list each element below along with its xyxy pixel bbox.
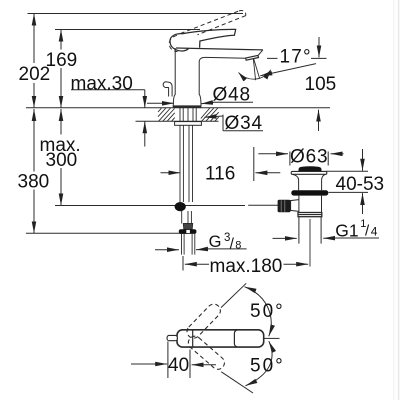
svg-text:50°: 50° bbox=[250, 356, 285, 377]
supply pipes bbox=[180, 125, 193, 202]
svg-text:Ø48: Ø48 bbox=[213, 84, 251, 105]
svg-text:max.180: max.180 bbox=[210, 256, 283, 277]
pop-up rod right segment bbox=[248, 204, 278, 206]
label max.30 with leader bbox=[71, 89, 145, 91]
dimension Ø63 bbox=[258, 153, 288, 155]
50 deg arc lower bbox=[246, 341, 273, 386]
G3/8 connection tube bbox=[182, 234, 195, 255]
dimension 202 bbox=[33, 14, 35, 64]
dimension max.300 bbox=[60, 109, 62, 135]
drain centerline bbox=[309, 219, 311, 267]
deck top line bbox=[26, 107, 330, 109]
svg-text:Ø34: Ø34 bbox=[225, 113, 263, 134]
handle axis tick bbox=[265, 337, 280, 339]
svg-text:/: / bbox=[230, 235, 235, 252]
pop-up rod knob behind faucet bbox=[163, 82, 172, 97]
drain rod socket bbox=[291, 200, 299, 212]
svg-text:17°: 17° bbox=[280, 47, 312, 68]
faucet spout top bbox=[176, 48, 263, 50]
handle dashed position down bbox=[186, 334, 227, 372]
dimension 116 bbox=[161, 172, 181, 174]
drain flange skirt bbox=[293, 174, 326, 190]
drain lift knob bbox=[298, 166, 321, 171]
deck hatching right bbox=[201, 108, 219, 121]
dimension Ø48 left arrow bbox=[147, 102, 174, 104]
dimension 169 bbox=[60, 30, 62, 50]
page edge shading bbox=[393, 0, 399, 400]
svg-text:G: G bbox=[209, 233, 222, 251]
drain shoulder ring bbox=[298, 213, 322, 217]
drain tailpiece bbox=[299, 217, 321, 244]
extension line top of open lever (202 ref) bbox=[28, 13, 244, 15]
drain knurled knob bbox=[278, 200, 291, 212]
faucet body left edge bbox=[173, 48, 175, 106]
extension line max.300 bottom / pop-up rod bbox=[55, 205, 245, 207]
50 deg arc upper bbox=[245, 287, 272, 337]
17 deg arc bbox=[239, 70, 271, 79]
svg-text:8: 8 bbox=[235, 239, 241, 251]
extension line 116 right bbox=[253, 147, 255, 181]
deck bottom line bbox=[136, 120, 219, 122]
svg-text:max.30: max.30 bbox=[71, 74, 133, 95]
extension line max.180 left bbox=[182, 256, 184, 271]
svg-text:G1: G1 bbox=[335, 221, 358, 241]
dimension 40-53 bbox=[362, 149, 364, 171]
handle top view solid bbox=[177, 330, 264, 347]
shank washer bbox=[175, 122, 202, 126]
svg-text:Ø63: Ø63 bbox=[290, 147, 328, 168]
extension lines 40 bbox=[168, 342, 190, 379]
dimension 105 top arrow bbox=[318, 37, 320, 57]
faucet lever solid bbox=[170, 29, 236, 51]
label 17 deg leader bbox=[260, 64, 316, 76]
faucet base bottom bbox=[173, 105, 202, 107]
label G1 1/4 arrows and underline bbox=[336, 237, 380, 239]
rod pivot bbox=[175, 202, 186, 211]
extension line 380 bottom bbox=[26, 232, 188, 234]
svg-text:40-53: 40-53 bbox=[336, 174, 385, 195]
dimension 380 bbox=[33, 109, 35, 172]
label G3/8 arrows and underline bbox=[155, 249, 179, 251]
drain body bbox=[299, 196, 322, 213]
deck hatching left bbox=[158, 108, 175, 121]
dimension max.180 bbox=[185, 263, 209, 265]
svg-text:169: 169 bbox=[46, 50, 78, 71]
dimension 105 bottom arrow bbox=[318, 110, 320, 131]
extension line outlet height (under 17 deg) bbox=[267, 57, 327, 59]
G3/8 hex nut bbox=[179, 229, 197, 234]
drain locknut bbox=[291, 190, 328, 195]
svg-text:40: 40 bbox=[168, 355, 189, 376]
svg-text:/: / bbox=[365, 223, 370, 240]
handle set screw nub bbox=[167, 335, 177, 340]
svg-text:50°: 50° bbox=[250, 301, 285, 322]
water stream lines bbox=[253, 59, 259, 81]
handle grip division lines bbox=[192, 330, 194, 346]
pipes below pivot bbox=[182, 211, 192, 224]
handle dashed position up bbox=[184, 301, 223, 340]
50 deg leg line lower bbox=[221, 372, 253, 393]
faucet spout tip face bbox=[258, 50, 263, 56]
drain flange plate bbox=[291, 171, 327, 174]
label Ø34 box and leader bbox=[223, 115, 263, 131]
svg-text:105: 105 bbox=[305, 74, 337, 95]
svg-text:380: 380 bbox=[18, 172, 50, 193]
faucet lever dashed open position bbox=[169, 11, 246, 52]
svg-text:300: 300 bbox=[46, 150, 78, 171]
faucet body right edge bbox=[199, 57, 246, 106]
extension lines 40-53 bbox=[326, 171, 368, 192]
svg-text:116: 116 bbox=[205, 164, 235, 185]
G3/8 fitting collar bbox=[183, 224, 192, 230]
extension line top of closed lever (169 ref) bbox=[55, 29, 200, 31]
dimension Ø48 leader and underline bbox=[213, 101, 254, 103]
faucet aerator bbox=[246, 55, 259, 60]
svg-text:4: 4 bbox=[371, 225, 378, 239]
faucet shank through deck bbox=[180, 108, 196, 121]
dimension 40 bbox=[131, 363, 167, 365]
50 deg leg line upper bbox=[221, 283, 246, 307]
extension lines Ø63 bbox=[290, 152, 328, 166]
